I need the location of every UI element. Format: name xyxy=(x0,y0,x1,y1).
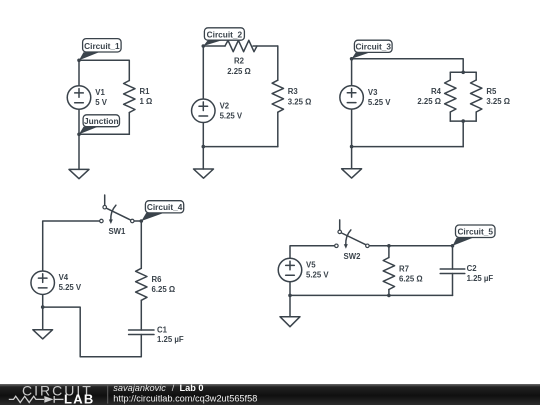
node circuit 3 bottom junction xyxy=(350,145,354,149)
svg-text:V4: V4 xyxy=(59,273,69,282)
node Circuit_2 anchor dot xyxy=(202,44,206,48)
svg-text:R5: R5 xyxy=(486,87,497,96)
resistor R5 xyxy=(471,80,482,112)
svg-text:savajankovic/Lab 0: savajankovic/Lab 0 xyxy=(113,383,203,393)
flag label Circuit_1 xyxy=(79,39,121,61)
svg-text:SW1: SW1 xyxy=(108,227,126,236)
flag label Circuit_4 xyxy=(141,201,183,221)
wire C2 top lead xyxy=(452,246,454,269)
wire to ground 2 xyxy=(202,147,204,169)
node V5 bottom junction xyxy=(288,294,292,298)
node R7 bottom junction xyxy=(387,294,391,298)
flag label Junction xyxy=(79,115,120,135)
wire top of circuit 3 xyxy=(352,59,464,73)
wire V2 bottom xyxy=(202,123,204,146)
svg-text:V1: V1 xyxy=(95,88,105,97)
wire switch SW1 to node xyxy=(135,220,142,222)
wire to ground 1 xyxy=(78,134,80,169)
node Circuit_4 anchor dot xyxy=(140,219,144,223)
wire bottom of circuit 3 xyxy=(352,146,464,148)
svg-text:6.25 Ω: 6.25 Ω xyxy=(152,285,176,294)
label V3 value xyxy=(368,88,391,107)
svg-text:Circuit_1: Circuit_1 xyxy=(84,41,120,51)
label R7 value xyxy=(399,265,423,284)
svg-text:1 Ω: 1 Ω xyxy=(140,97,153,106)
svg-text:1.25 µF: 1.25 µF xyxy=(467,274,494,283)
resistor R6 xyxy=(136,268,147,300)
label R5 value xyxy=(486,87,510,106)
wire V3 top xyxy=(351,59,353,85)
svg-text:5.25 V: 5.25 V xyxy=(59,283,82,292)
wire parallel top rail xyxy=(450,71,476,73)
svg-text:Circuit_5: Circuit_5 xyxy=(457,227,493,237)
resistor R4 xyxy=(445,80,456,112)
wire to ground 3 xyxy=(351,147,353,169)
svg-text:1.25 µF: 1.25 µF xyxy=(157,335,184,344)
switch SW2 xyxy=(335,220,370,249)
svg-text:3.25 Ω: 3.25 Ω xyxy=(288,97,312,106)
svg-text:5.25 V: 5.25 V xyxy=(306,271,329,280)
wire top of circuit 1 xyxy=(79,60,129,80)
voltage source V3 xyxy=(340,86,364,110)
wire C2 bottom lead xyxy=(452,274,454,296)
svg-text:R6: R6 xyxy=(152,275,163,284)
label V4 value xyxy=(59,273,82,292)
label R3 value xyxy=(288,87,312,106)
wire R4 bottom lead xyxy=(449,112,451,121)
voltage source V4 xyxy=(31,271,55,295)
switch SW1 xyxy=(100,195,134,224)
ground circuit 5 xyxy=(280,317,300,327)
wire R3 bottom xyxy=(277,112,279,146)
wire V4 bottom xyxy=(42,295,44,307)
flag label Circuit_5 xyxy=(453,225,495,246)
footer bar xyxy=(0,384,540,405)
svg-text:Circuit_3: Circuit_3 xyxy=(355,42,391,52)
ground circuit 4 xyxy=(33,330,53,339)
label R6 value xyxy=(152,275,176,294)
svg-text:SW2: SW2 xyxy=(344,252,362,261)
wire bottom of circuit 5 xyxy=(290,294,453,296)
node circuit 2 bottom junction xyxy=(202,145,206,149)
svg-text:2.25 Ω: 2.25 Ω xyxy=(227,67,251,76)
wire R4 top lead xyxy=(449,72,451,80)
node parallel top junction xyxy=(461,71,465,75)
svg-text:5.25 V: 5.25 V xyxy=(220,111,243,120)
wire V5 bottom xyxy=(289,282,291,295)
wire switch SW2 to C2 xyxy=(370,245,453,247)
wire R1 bottom xyxy=(128,113,130,135)
wire to ground 5 xyxy=(289,295,291,316)
wire parallel to bottom xyxy=(462,121,464,147)
svg-text:LAB: LAB xyxy=(64,392,95,405)
label V5 value xyxy=(306,261,329,280)
label R1 value xyxy=(140,87,153,106)
ground circuit 3 xyxy=(342,169,362,178)
label V1 value xyxy=(95,88,108,107)
CircuitLab logo resistor-diode glyph xyxy=(9,396,64,403)
svg-text:Circuit_4: Circuit_4 xyxy=(147,202,183,212)
svg-text:R1: R1 xyxy=(140,87,151,96)
label C1 value xyxy=(157,325,184,344)
wire bottom of circuit 4 xyxy=(43,307,142,357)
node Circuit_3 anchor dot xyxy=(350,57,354,61)
wire parallel bottom rail xyxy=(450,120,476,122)
wire R7 bottom lead xyxy=(388,290,390,296)
label V2 value xyxy=(220,101,243,120)
svg-text:R4: R4 xyxy=(431,87,442,96)
resistor R2 xyxy=(225,40,257,51)
wire R6 to C1 xyxy=(140,300,142,330)
wire V1 top xyxy=(78,60,80,85)
svg-text:http://circuitlab.com/cq3w2ut5: http://circuitlab.com/cq3w2ut565f58 xyxy=(113,393,257,403)
ground circuit 2 xyxy=(194,169,214,178)
svg-text:R7: R7 xyxy=(399,265,409,274)
node V4 bottom junction xyxy=(41,305,45,309)
svg-text:6.25 Ω: 6.25 Ω xyxy=(399,275,423,284)
wire V5 top to switch xyxy=(290,246,334,258)
wire R7 top lead xyxy=(388,246,390,258)
resistor R1 xyxy=(124,81,135,113)
wire to ground 4 xyxy=(42,307,44,330)
svg-text:Circuit_2: Circuit_2 xyxy=(207,29,243,39)
wire top of circuit 2 right xyxy=(253,45,278,47)
node Circuit_1 anchor dot xyxy=(77,59,81,63)
capacitor C2 xyxy=(440,269,465,274)
svg-text:R3: R3 xyxy=(288,87,299,96)
wire top of circuit 2 left xyxy=(203,45,225,47)
node Circuit_5 anchor dot xyxy=(451,244,455,248)
flag label Circuit_3 xyxy=(352,40,393,59)
footer separator line xyxy=(107,386,109,404)
voltage source V2 xyxy=(192,99,216,123)
wire V4 top to switch xyxy=(43,221,99,270)
label R4 value xyxy=(417,87,441,106)
svg-text:V2: V2 xyxy=(220,101,230,110)
wire bottom of circuit 1 xyxy=(79,133,129,135)
svg-text:R2: R2 xyxy=(234,57,245,66)
svg-text:C1: C1 xyxy=(157,325,168,334)
label R2 value xyxy=(227,57,251,76)
flag label Circuit_2 xyxy=(203,28,244,46)
svg-text:Junction: Junction xyxy=(84,116,119,126)
ground circuit 1 xyxy=(69,169,89,178)
wire V3 bottom xyxy=(351,110,353,147)
svg-text:V5: V5 xyxy=(306,261,316,270)
label C2 value xyxy=(467,264,494,283)
node Junction anchor dot xyxy=(77,133,81,137)
resistor R3 xyxy=(272,80,283,112)
resistor R7 xyxy=(383,258,394,290)
node R7 top junction xyxy=(387,244,391,248)
wire R3 top xyxy=(277,46,279,80)
svg-text:3.25 Ω: 3.25 Ω xyxy=(486,97,510,106)
capacitor C1 xyxy=(129,330,154,335)
svg-text:5 V: 5 V xyxy=(95,98,108,107)
wire R5 bottom lead xyxy=(475,112,477,121)
wire V2 top xyxy=(202,46,204,99)
voltage source V1 xyxy=(67,86,91,110)
wire V1 bottom xyxy=(78,110,80,134)
svg-text:2.25 Ω: 2.25 Ω xyxy=(417,97,441,106)
svg-text:V3: V3 xyxy=(368,88,378,97)
wire R5 top lead xyxy=(475,72,477,80)
node parallel bottom junction xyxy=(461,119,465,123)
svg-text:C2: C2 xyxy=(467,264,478,273)
wire node to R6 xyxy=(140,221,142,268)
voltage source V5 xyxy=(278,258,302,282)
svg-text:5.25 V: 5.25 V xyxy=(368,98,391,107)
wire bottom of circuit 2 xyxy=(203,146,277,148)
